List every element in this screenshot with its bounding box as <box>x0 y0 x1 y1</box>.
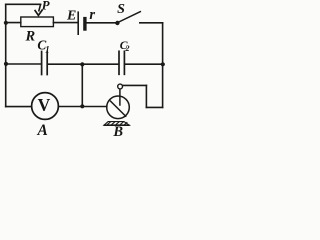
svg-text:B: B <box>112 124 123 137</box>
capacitor C2 right plate <box>123 51 125 74</box>
wire: right drop vertical <box>145 85 147 107</box>
capacitor C2 left plate <box>118 51 120 74</box>
wire: C2 to right rail <box>125 63 162 65</box>
wire: left rail to capacitor C1 <box>6 63 41 65</box>
svg-text:P: P <box>42 0 51 12</box>
electroscope B rod <box>119 89 121 105</box>
rheostat slider arrowhead <box>35 10 42 15</box>
wire: middle vertical branch <box>81 64 83 106</box>
wire: switch to top-right corner <box>140 22 163 24</box>
node: middle junction capacitor row <box>80 62 84 66</box>
wire: C1 to middle junction <box>48 63 82 65</box>
node: junction on left rail at rheostat row <box>4 21 8 25</box>
wire: battery to switch <box>87 22 116 24</box>
resistor (rheostat) R box <box>21 17 54 27</box>
wire: terminal ball to right drop <box>123 84 147 86</box>
wire: junction to rheostat R <box>6 22 21 24</box>
svg-text:C2: C2 <box>120 39 130 53</box>
node: junction on left rail at capacitor row <box>4 62 8 66</box>
svg-text:E: E <box>66 9 76 24</box>
node: junction on right rail at capacitor row <box>161 62 165 66</box>
svg-text:A: A <box>37 122 48 137</box>
svg-text:r: r <box>89 7 95 23</box>
wire: middle junction to capacitor C2 <box>82 63 118 65</box>
wire: voltmeter to bottom junction <box>58 106 82 108</box>
electroscope B top terminal ball <box>118 84 123 89</box>
switch S pivot node <box>115 21 119 25</box>
electroscope B leaf <box>110 101 125 116</box>
battery short thick plate <box>83 19 86 29</box>
wire: right vertical rail <box>162 23 164 108</box>
wire: bottom junction to electroscope B <box>82 106 107 108</box>
wire: left vertical rail <box>5 4 7 106</box>
battery E long plate <box>77 12 79 34</box>
capacitor C1 right plate <box>46 52 48 75</box>
wire: bottom-left to voltmeter <box>6 106 32 108</box>
wire: drop to right rail <box>146 106 162 108</box>
voltmeter V circle <box>32 93 59 120</box>
capacitor C1 left plate <box>41 52 43 75</box>
svg-text:R: R <box>25 28 36 44</box>
switch S blade <box>118 12 140 23</box>
svg-text:V: V <box>38 95 51 115</box>
wire: R to battery <box>53 22 77 24</box>
rheostat slider arrow P <box>39 5 41 11</box>
wire: top slider connection <box>6 3 41 5</box>
node: bottom junction <box>80 104 84 108</box>
electroscope B case circle <box>107 96 130 119</box>
svg-text:C1: C1 <box>37 37 49 54</box>
electroscope B insulating base (hatched) <box>104 122 130 126</box>
svg-text:S: S <box>117 2 125 17</box>
